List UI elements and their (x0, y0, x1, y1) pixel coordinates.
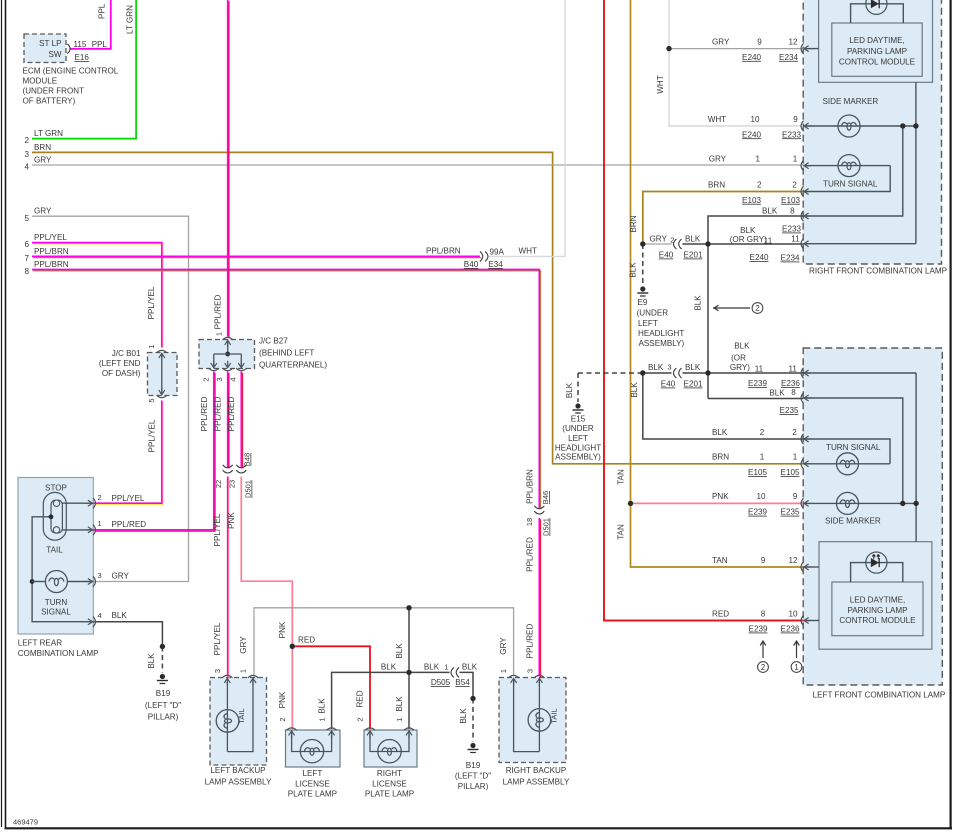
svg-text:5: 5 (24, 214, 29, 223)
svg-text:1: 1 (239, 669, 248, 673)
svg-text:TAN: TAN (712, 556, 728, 565)
svg-text:1: 1 (755, 154, 760, 163)
svg-text:B46: B46 (541, 491, 550, 504)
svg-text:E233: E233 (782, 225, 801, 234)
svg-text:PPL/BRN: PPL/BRN (34, 260, 69, 269)
svg-text:PPL/YEL: PPL/YEL (213, 622, 222, 655)
svg-text:(LEFT END: (LEFT END (99, 359, 141, 368)
svg-text:TAN: TAN (617, 469, 626, 485)
svg-text:BRN: BRN (629, 215, 638, 232)
svg-text:1: 1 (318, 717, 327, 721)
svg-text:PPL/RED: PPL/RED (214, 295, 223, 330)
svg-text:E9: E9 (638, 298, 648, 307)
svg-text:BLK: BLK (459, 708, 468, 724)
svg-text:2: 2 (98, 493, 102, 502)
svg-text:ST LP: ST LP (39, 39, 61, 48)
svg-text:RIGHT FRONT COMBINATION LAMP: RIGHT FRONT COMBINATION LAMP (809, 267, 947, 276)
svg-text:PARKING LAMP: PARKING LAMP (847, 606, 907, 615)
svg-text:COMBINATION LAMP: COMBINATION LAMP (18, 649, 99, 658)
svg-text:PPL/BRN: PPL/BRN (526, 469, 535, 504)
svg-text:2: 2 (761, 663, 765, 672)
svg-text:PPL/YEL: PPL/YEL (34, 233, 67, 242)
svg-text:LED DAYTIME,: LED DAYTIME, (850, 596, 906, 605)
svg-text:BLK: BLK (685, 363, 701, 372)
svg-text:OF DASH): OF DASH) (102, 369, 141, 378)
svg-text:PPL/RED: PPL/RED (112, 520, 147, 529)
svg-text:J/C B27: J/C B27 (259, 337, 288, 346)
svg-text:GRY: GRY (34, 155, 52, 164)
svg-text:HEADLIGHT: HEADLIGHT (555, 444, 601, 453)
svg-text:E236: E236 (781, 379, 800, 388)
svg-text:TURN: TURN (45, 598, 68, 607)
svg-text:LEFT: LEFT (568, 434, 588, 443)
svg-text:11: 11 (791, 234, 800, 243)
svg-text:LEFT FRONT COMBINATION LAMP: LEFT FRONT COMBINATION LAMP (813, 691, 946, 700)
svg-text:3: 3 (24, 150, 29, 159)
svg-text:BLK: BLK (318, 698, 327, 714)
svg-text:5: 5 (147, 398, 156, 402)
svg-text:QUARTERPANEL): QUARTERPANEL) (259, 361, 327, 370)
svg-text:BLK: BLK (630, 382, 639, 398)
svg-text:D501: D501 (244, 480, 253, 498)
svg-text:8: 8 (761, 609, 766, 618)
svg-text:TURN SIGNAL: TURN SIGNAL (826, 443, 881, 452)
svg-text:1: 1 (444, 663, 448, 672)
svg-text:PPL/YEL: PPL/YEL (112, 494, 145, 503)
svg-text:LED DAYTIME,: LED DAYTIME, (849, 36, 905, 45)
svg-text:B19: B19 (156, 689, 171, 698)
svg-text:LEFT REAR: LEFT REAR (18, 639, 63, 648)
svg-text:BRN: BRN (708, 180, 725, 189)
svg-text:GRY: GRY (239, 636, 248, 654)
svg-text:PPL/RED: PPL/RED (526, 537, 535, 572)
svg-text:E239: E239 (748, 508, 767, 517)
svg-text:469479: 469479 (13, 818, 38, 827)
svg-text:LEFT BACKUP: LEFT BACKUP (210, 766, 265, 775)
svg-text:9: 9 (793, 492, 798, 501)
svg-text:LICENSE: LICENSE (295, 779, 330, 788)
svg-text:2: 2 (757, 180, 762, 189)
svg-text:BLK: BLK (424, 663, 440, 672)
svg-text:11: 11 (788, 365, 797, 374)
svg-text:E240: E240 (742, 53, 761, 62)
svg-text:GRY: GRY (709, 154, 727, 163)
svg-text:B19: B19 (466, 761, 481, 770)
svg-text:TAIL: TAIL (46, 546, 63, 555)
svg-text:E240: E240 (750, 253, 769, 262)
svg-text:PPL/RED: PPL/RED (227, 397, 236, 432)
svg-text:4: 4 (98, 611, 102, 620)
svg-text:SIDE MARKER: SIDE MARKER (823, 97, 879, 106)
svg-text:23: 23 (227, 480, 236, 488)
svg-text:BLK: BLK (147, 653, 156, 669)
svg-text:E235: E235 (780, 406, 799, 415)
svg-text:99A: 99A (490, 248, 505, 257)
svg-text:22: 22 (214, 480, 223, 488)
svg-text:PARKING LAMP: PARKING LAMP (847, 47, 907, 56)
svg-text:4: 4 (229, 377, 238, 381)
svg-text:BLK: BLK (565, 382, 574, 398)
svg-text:BLK: BLK (462, 663, 478, 672)
svg-text:2: 2 (24, 136, 29, 145)
svg-text:PPL: PPL (92, 40, 108, 49)
svg-text:9: 9 (761, 556, 766, 565)
svg-text:11: 11 (755, 365, 764, 374)
svg-text:10: 10 (788, 609, 798, 618)
svg-text:PPL/YEL: PPL/YEL (213, 513, 222, 546)
svg-text:SIDE MARKER: SIDE MARKER (825, 517, 881, 526)
svg-text:2: 2 (792, 428, 797, 437)
svg-text:GRY): GRY) (730, 363, 750, 372)
svg-text:E105: E105 (748, 468, 767, 477)
svg-text:LT GRN: LT GRN (34, 129, 63, 138)
svg-text:2: 2 (792, 180, 797, 189)
svg-text:PPL/BRN: PPL/BRN (426, 247, 461, 256)
svg-text:RIGHT BACKUP: RIGHT BACKUP (506, 766, 567, 775)
svg-text:GRY: GRY (650, 235, 668, 244)
svg-text:GRY: GRY (34, 207, 52, 216)
svg-text:PPL/BRN: PPL/BRN (34, 247, 69, 256)
svg-text:GRY: GRY (499, 637, 508, 655)
svg-text:1: 1 (98, 519, 102, 528)
svg-text:BLK: BLK (395, 643, 404, 659)
svg-text:1: 1 (793, 154, 798, 163)
svg-text:E235: E235 (781, 508, 800, 517)
svg-text:3: 3 (667, 363, 671, 372)
svg-text:PNK: PNK (227, 512, 236, 529)
svg-text:PILLAR): PILLAR) (458, 782, 489, 791)
svg-text:E233: E233 (782, 130, 801, 139)
svg-text:LT GRN: LT GRN (126, 5, 135, 34)
svg-text:SIGNAL: SIGNAL (41, 608, 71, 617)
svg-text:12: 12 (788, 37, 798, 46)
svg-text:LEFT: LEFT (638, 319, 658, 328)
svg-text:8: 8 (790, 207, 795, 216)
svg-text:MODULE: MODULE (23, 77, 58, 86)
svg-text:RED: RED (712, 609, 729, 618)
svg-text:E16: E16 (75, 53, 90, 62)
svg-text:(LEFT "D": (LEFT "D" (145, 701, 181, 710)
svg-text:ASSEMBLY): ASSEMBLY) (555, 453, 601, 462)
svg-text:1: 1 (793, 453, 798, 462)
svg-text:2: 2 (670, 236, 674, 245)
svg-text:LAMP ASSEMBLY: LAMP ASSEMBLY (503, 778, 570, 787)
svg-text:(OR GRY): (OR GRY) (730, 235, 767, 244)
svg-text:3: 3 (213, 669, 222, 673)
svg-text:PLATE LAMP: PLATE LAMP (288, 790, 337, 799)
svg-text:E40: E40 (661, 380, 676, 389)
svg-text:PPL/YEL: PPL/YEL (147, 419, 156, 452)
svg-text:2: 2 (278, 717, 287, 721)
svg-text:E239: E239 (749, 625, 768, 634)
svg-text:BLK: BLK (762, 207, 778, 216)
svg-text:TAIL: TAIL (549, 708, 558, 723)
svg-text:RED: RED (356, 690, 365, 707)
svg-text:BRN: BRN (712, 453, 729, 462)
svg-text:E234: E234 (781, 254, 800, 263)
svg-text:BLK: BLK (112, 611, 128, 620)
svg-text:(OR: (OR (731, 353, 746, 362)
svg-text:(UNDER: (UNDER (562, 424, 594, 433)
svg-text:1: 1 (760, 453, 765, 462)
svg-text:9: 9 (757, 37, 762, 46)
svg-text:GRY: GRY (712, 37, 730, 46)
svg-text:B54: B54 (455, 678, 470, 687)
svg-text:TAIL: TAIL (237, 708, 246, 723)
svg-text:(BEHIND LEFT: (BEHIND LEFT (259, 349, 314, 358)
svg-text:TAN: TAN (617, 524, 626, 540)
svg-text:BLK: BLK (740, 226, 756, 235)
svg-text:1: 1 (147, 344, 156, 348)
svg-text:E34: E34 (488, 260, 503, 269)
svg-text:6: 6 (24, 240, 29, 249)
svg-text:E103: E103 (781, 196, 800, 205)
svg-text:9: 9 (793, 115, 798, 124)
svg-text:BLK: BLK (712, 428, 728, 437)
svg-text:E234: E234 (779, 53, 798, 62)
svg-text:PNK: PNK (712, 492, 729, 501)
svg-text:12: 12 (788, 556, 798, 565)
svg-text:WHT: WHT (656, 75, 665, 93)
svg-text:(UNDER FRONT: (UNDER FRONT (23, 87, 85, 96)
svg-text:B48: B48 (243, 453, 252, 466)
svg-text:BLK: BLK (693, 295, 702, 311)
svg-text:1: 1 (499, 669, 508, 673)
svg-text:GRY: GRY (112, 572, 130, 581)
svg-text:PLATE LAMP: PLATE LAMP (365, 790, 414, 799)
svg-text:(UNDER: (UNDER (637, 309, 669, 318)
svg-text:WHT: WHT (519, 247, 537, 256)
svg-text:E240: E240 (742, 130, 761, 139)
svg-text:E236: E236 (781, 625, 800, 634)
svg-text:8: 8 (791, 388, 796, 397)
svg-text:3: 3 (215, 377, 224, 381)
svg-text:1: 1 (395, 717, 404, 721)
svg-text:E201: E201 (684, 380, 703, 389)
svg-text:LEFT: LEFT (303, 769, 323, 778)
svg-text:2: 2 (356, 717, 365, 721)
svg-text:PPL/RED: PPL/RED (214, 397, 223, 432)
svg-text:BRN: BRN (34, 143, 51, 152)
svg-text:18: 18 (525, 518, 534, 526)
svg-text:ASSEMBLY): ASSEMBLY) (639, 339, 685, 348)
svg-text:2: 2 (755, 304, 759, 313)
svg-text:11: 11 (764, 236, 773, 245)
svg-text:1: 1 (794, 663, 798, 672)
svg-text:BLK: BLK (734, 341, 750, 350)
svg-text:CONTROL MODULE: CONTROL MODULE (839, 616, 916, 625)
svg-text:CONTROL MODULE: CONTROL MODULE (839, 58, 916, 67)
svg-text:2: 2 (201, 377, 210, 381)
svg-text:10: 10 (750, 115, 760, 124)
svg-text:PNK: PNK (278, 691, 287, 708)
svg-text:PPL: PPL (98, 3, 107, 19)
svg-text:PPL/RED: PPL/RED (200, 397, 209, 432)
svg-text:PILLAR): PILLAR) (148, 713, 179, 722)
svg-text:E40: E40 (659, 251, 674, 260)
svg-text:PPL/YEL: PPL/YEL (147, 286, 156, 319)
svg-text:E201: E201 (684, 251, 703, 260)
svg-text:D505: D505 (431, 678, 451, 687)
svg-text:E103: E103 (742, 196, 761, 205)
svg-text:BLK: BLK (381, 663, 397, 672)
svg-text:J/C B01: J/C B01 (112, 349, 141, 358)
svg-text:2: 2 (760, 428, 765, 437)
svg-text:LICENSE: LICENSE (372, 779, 407, 788)
svg-text:PNK: PNK (278, 621, 287, 638)
svg-text:BLK: BLK (769, 389, 785, 398)
svg-text:TURN SIGNAL: TURN SIGNAL (823, 180, 878, 189)
svg-text:10: 10 (756, 492, 766, 501)
svg-text:3: 3 (98, 571, 102, 580)
svg-text:115: 115 (74, 40, 87, 49)
svg-text:ECM (ENGINE CONTROL: ECM (ENGINE CONTROL (23, 67, 119, 76)
svg-text:RED: RED (298, 636, 315, 645)
svg-text:E239: E239 (748, 379, 767, 388)
svg-text:E105: E105 (781, 468, 800, 477)
svg-text:OF BATTERY): OF BATTERY) (23, 97, 76, 106)
svg-text:BLK: BLK (629, 262, 638, 278)
svg-text:PPL/RED: PPL/RED (526, 624, 535, 659)
svg-text:7: 7 (24, 254, 29, 263)
svg-text:LAMP ASSEMBLY: LAMP ASSEMBLY (205, 778, 272, 787)
svg-text:STOP: STOP (45, 484, 67, 493)
svg-text:B40: B40 (464, 260, 479, 269)
svg-text:BLK: BLK (648, 363, 664, 372)
svg-text:3: 3 (526, 669, 535, 673)
svg-text:E15: E15 (571, 415, 586, 424)
svg-text:BLK: BLK (395, 696, 404, 712)
svg-text:4: 4 (24, 163, 29, 172)
svg-text:D501: D501 (542, 518, 551, 536)
svg-text:8: 8 (24, 267, 29, 276)
svg-text:BLK: BLK (685, 235, 701, 244)
svg-text:SW: SW (48, 50, 61, 59)
svg-text:WHT: WHT (708, 115, 726, 124)
svg-text:1: 1 (215, 332, 224, 336)
svg-text:(LEFT "D": (LEFT "D" (455, 772, 491, 781)
svg-text:RIGHT: RIGHT (377, 769, 402, 778)
svg-text:HEADLIGHT: HEADLIGHT (638, 329, 684, 338)
